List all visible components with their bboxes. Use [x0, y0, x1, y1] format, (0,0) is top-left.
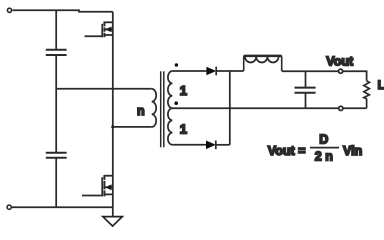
wire primary top lead / capacitor midpoint: [56, 88, 152, 90]
svg-text:D: D: [319, 133, 328, 147]
svg-text:1: 1: [180, 122, 187, 137]
transformer core: [161, 71, 164, 147]
wire inductor to output: [282, 70, 339, 72]
terminal Vout+: [339, 69, 343, 73]
ground: [103, 217, 123, 227]
diode D2: [206, 141, 216, 150]
wire to load top: [343, 71, 367, 81]
svg-text:Vout: Vout: [326, 55, 354, 69]
phasing dot center: [174, 101, 178, 105]
transistor Q2: [82, 175, 113, 196]
transistor Q1: [85, 22, 113, 38]
wire switching rail: [112, 12, 114, 217]
terminal Vout-: [339, 106, 343, 110]
resistor load: [364, 81, 370, 109]
wire input capacitor branch top: [55, 10, 57, 49]
wire secondary top lead: [172, 70, 206, 72]
wire D2 cathode to rail: [216, 144, 230, 146]
wire load bottom: [343, 107, 367, 109]
transformer T1 primary winding: [152, 89, 157, 127]
wire bottom rail: [11, 206, 112, 208]
wire between capacitors: [55, 55, 57, 152]
terminal Vin-: [7, 205, 11, 209]
svg-text:Vin: Vin: [343, 144, 362, 158]
wire capacitor branch bottom: [55, 158, 57, 207]
wire secondary bottom lead: [172, 144, 206, 146]
wire cathode rail: [229, 71, 231, 145]
svg-text:1: 1: [180, 83, 187, 98]
svg-text:Vout =: Vout =: [268, 144, 306, 158]
terminal Vin+: [7, 8, 11, 12]
wire output return / center tap: [172, 107, 339, 109]
capacitor C2: [46, 153, 67, 158]
capacitor C1: [46, 50, 67, 55]
wire primary bottom lead: [113, 126, 152, 128]
inductor L1: [244, 56, 282, 71]
svg-text:n: n: [137, 104, 145, 118]
wire D1 cathode to inductor: [216, 70, 244, 72]
phasing dot top: [175, 63, 178, 66]
capacitor Cout: [305, 71, 307, 87]
svg-text:2 n: 2 n: [315, 149, 333, 163]
svg-text:L: L: [378, 80, 384, 92]
junction primary bottom on rail: [111, 125, 114, 128]
wire top rail: [13, 10, 113, 11]
transformer T1 secondary winding: [168, 71, 173, 145]
diode D1: [206, 67, 216, 76]
